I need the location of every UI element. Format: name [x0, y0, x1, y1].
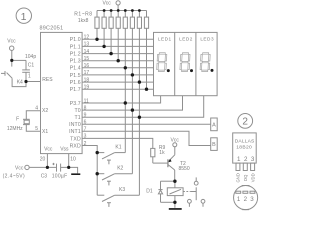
svg-text:P1.7: P1.7 [70, 87, 81, 93]
svg-text:17: 17 [84, 70, 90, 76]
svg-text:1: 1 [237, 196, 241, 203]
svg-text:1: 1 [28, 73, 31, 79]
svg-text:P1.4: P1.4 [70, 66, 81, 72]
svg-text:13: 13 [84, 42, 90, 48]
svg-text:19: 19 [84, 85, 90, 91]
svg-text:X1: X1 [42, 129, 48, 135]
svg-text:Vcc: Vcc [102, 1, 111, 7]
svg-text:100µF: 100µF [52, 173, 68, 179]
svg-text:K2: K2 [117, 166, 123, 172]
svg-text:K3: K3 [119, 187, 125, 193]
svg-text:DQ: DQ [243, 174, 248, 181]
svg-text:T0: T0 [75, 108, 81, 114]
svg-text:2: 2 [84, 141, 87, 147]
svg-text:(2.4~5V): (2.4~5V) [3, 173, 26, 179]
svg-text:2: 2 [242, 117, 248, 128]
svg-text:C3: C3 [41, 173, 48, 179]
svg-text:11: 11 [84, 98, 89, 104]
svg-text:12: 12 [84, 35, 90, 41]
svg-text:104p: 104p [25, 54, 36, 60]
svg-text:8550: 8550 [179, 166, 190, 172]
svg-text:20: 20 [40, 156, 46, 162]
svg-text:6: 6 [84, 120, 87, 126]
svg-text:7: 7 [84, 127, 87, 133]
svg-text:1: 1 [21, 11, 27, 23]
svg-text:INT1: INT1 [69, 129, 81, 135]
svg-text:C1: C1 [28, 62, 35, 68]
svg-text:LED1: LED1 [158, 36, 172, 41]
svg-text:9: 9 [84, 113, 87, 119]
svg-text:B: B [212, 142, 216, 148]
svg-text:R1~R8: R1~R8 [74, 12, 92, 18]
svg-text:Vcc: Vcc [44, 147, 53, 153]
svg-text:18: 18 [84, 77, 90, 83]
svg-text:VDD: VDD [250, 173, 255, 182]
svg-text:15: 15 [84, 56, 90, 62]
svg-text:2: 2 [244, 196, 248, 203]
svg-text:F: F [16, 117, 19, 123]
svg-text:K1: K1 [115, 145, 121, 151]
svg-text:14: 14 [84, 49, 90, 55]
svg-text:4: 4 [35, 106, 38, 112]
svg-text:18B20: 18B20 [236, 144, 252, 150]
svg-text:10: 10 [70, 156, 76, 162]
svg-text:P1.5: P1.5 [70, 73, 81, 79]
svg-text:Vcc: Vcc [15, 165, 24, 171]
svg-text:1k: 1k [159, 150, 165, 156]
svg-text:LED3: LED3 [200, 36, 214, 41]
svg-text:Vcc: Vcc [7, 38, 16, 44]
svg-text:8: 8 [84, 105, 87, 111]
svg-text:12MHz: 12MHz [7, 126, 23, 132]
svg-text:P1.2: P1.2 [70, 52, 81, 58]
svg-text:DALLAS: DALLAS [235, 139, 255, 145]
svg-text:P1.1: P1.1 [70, 44, 81, 50]
svg-text:5: 5 [35, 126, 38, 132]
svg-text:D1: D1 [146, 189, 153, 195]
svg-text:P1.6: P1.6 [70, 80, 81, 86]
svg-text:INT0: INT0 [69, 122, 81, 128]
svg-text:Vcc: Vcc [171, 137, 180, 143]
svg-text:P1.3: P1.3 [70, 59, 81, 65]
svg-text:K4: K4 [17, 80, 23, 86]
svg-text:RXD: RXD [70, 143, 81, 149]
svg-text:3: 3 [250, 196, 254, 203]
svg-text:GND: GND [236, 173, 241, 182]
svg-text:T1: T1 [75, 115, 81, 121]
svg-text:A: A [212, 123, 216, 129]
svg-text:P1.0: P1.0 [70, 37, 81, 43]
svg-text:LED2: LED2 [179, 36, 193, 41]
svg-text:RES: RES [42, 77, 53, 83]
svg-text:3: 3 [84, 134, 87, 140]
svg-text:Vss: Vss [60, 147, 69, 153]
svg-text:2: 2 [244, 156, 248, 163]
svg-text:TXD: TXD [70, 136, 81, 142]
svg-text:P3.7: P3.7 [70, 101, 81, 107]
svg-text:1kx8: 1kx8 [78, 18, 89, 24]
svg-text:1: 1 [237, 156, 241, 163]
svg-text:16: 16 [84, 63, 90, 69]
svg-text:X2: X2 [42, 108, 48, 114]
svg-text:89C2051: 89C2051 [40, 25, 64, 31]
svg-text:3: 3 [251, 156, 255, 163]
